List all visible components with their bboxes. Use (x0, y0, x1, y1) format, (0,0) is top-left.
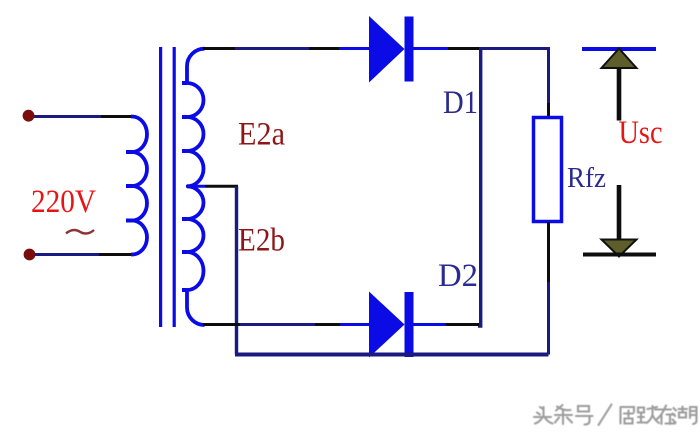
resistor Rfz body (534, 118, 562, 222)
svg-text:E2b: E2b (238, 223, 285, 259)
node terminal dot top (23, 110, 35, 122)
wire secondary bottom to D2 (203, 323, 372, 326)
transformer primary winding (126, 117, 147, 255)
wire center tap (blue stub + black) (186, 185, 238, 188)
diode D2 (369, 292, 414, 358)
wire secondary top to D1 (203, 47, 372, 50)
wire D2 cathode to junction (414, 323, 480, 326)
arrow up (Usc +) (602, 49, 637, 69)
svg-text:E2a: E2a (238, 117, 285, 153)
svg-text:D2: D2 (438, 258, 478, 294)
svg-text:220V: 220V (31, 184, 96, 220)
wire resistor bottom (547, 222, 550, 355)
wire primary bottom (navy+black) (35, 253, 133, 256)
transformer secondary winding E2a (182, 49, 205, 187)
watermark 头条号 / 居跃在湖 (534, 405, 697, 426)
wire arrow stem lower (617, 185, 622, 240)
wire down to resistor top (547, 47, 550, 118)
node terminal dot bottom (24, 249, 36, 261)
wire arrow stem upper (617, 68, 622, 121)
output bottom bar (583, 253, 656, 257)
transformer secondary winding E2b (182, 186, 205, 325)
svg-text:Rfz: Rfz (567, 162, 606, 194)
label ~ (AC symbol) (66, 230, 94, 234)
transformer core (159, 47, 176, 327)
diode D1 (369, 16, 414, 83)
svg-text:Usc: Usc (619, 115, 663, 151)
svg-text:D1: D1 (443, 85, 478, 121)
wire junction vertical D1-D2 cathodes (478, 47, 481, 326)
wire primary top (navy+black) (33, 115, 133, 118)
arrow down (Usc -) (602, 240, 637, 257)
wire bottom return (235, 353, 549, 357)
wire center tap vertical (235, 186, 238, 354)
output top bar (582, 47, 656, 51)
wire D1 cathode to output node (414, 47, 551, 50)
